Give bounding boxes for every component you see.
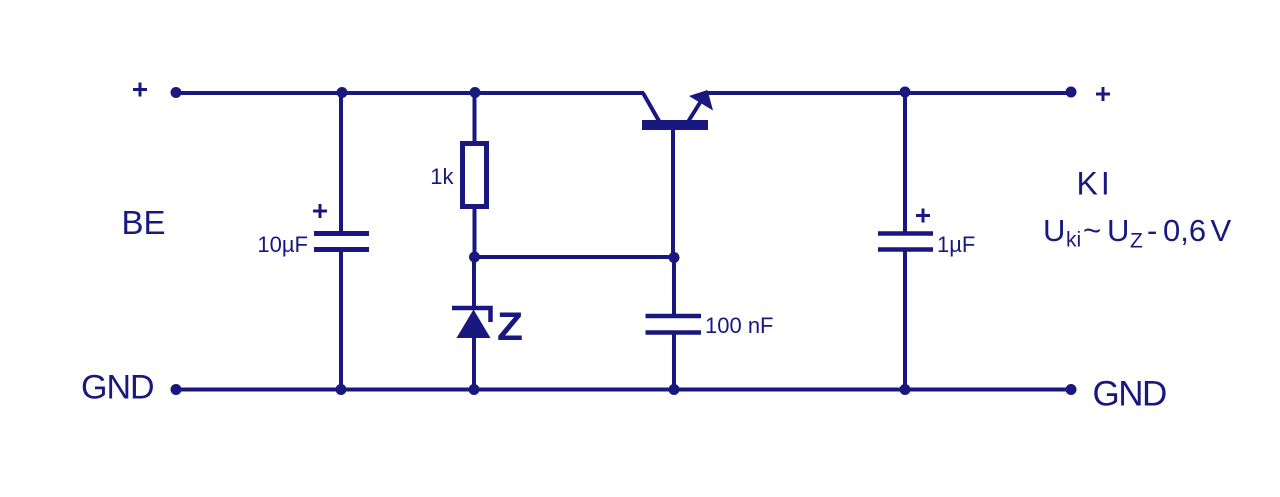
transistor Q1 emitter diagonal xyxy=(689,101,702,121)
node junction top rail C1 xyxy=(337,87,348,98)
capacitor C3 plates (1uF electrolytic) xyxy=(878,234,933,250)
svg-text:ki: ki xyxy=(1066,229,1081,252)
svg-text:Z: Z xyxy=(497,305,523,349)
wire node A to node B horizontal xyxy=(475,255,675,259)
node junction GND C3 xyxy=(900,384,911,395)
wire R1 bottom lead to node A xyxy=(473,207,477,259)
wire C1 branch upper xyxy=(339,93,343,232)
node label + input positive xyxy=(133,83,147,97)
node junction GND C1 xyxy=(336,384,347,395)
wire top rail right segment xyxy=(704,91,1071,95)
node output + terminal dot xyxy=(1066,87,1077,98)
wire D1 bottom lead xyxy=(472,337,476,389)
wire C2 top lead xyxy=(672,257,676,315)
wire top rail left segment xyxy=(176,91,644,95)
svg-text:U: U xyxy=(1043,213,1065,248)
svg-text:10µF: 10µF xyxy=(257,232,308,257)
wire bottom GND rail xyxy=(176,388,1071,392)
node junction top rail C3 xyxy=(900,87,911,98)
wire C2 bottom lead xyxy=(672,334,676,389)
svg-text:1k: 1k xyxy=(430,164,454,189)
node input + terminal dot xyxy=(171,87,182,98)
zener diode D1 anode triangle xyxy=(457,310,491,339)
node junction top rail R1 xyxy=(470,87,481,98)
node B junction base/C2 xyxy=(669,252,680,263)
svg-text:GND: GND xyxy=(81,369,154,407)
svg-text:V: V xyxy=(1211,213,1232,248)
node A junction R1/D1 xyxy=(469,252,480,263)
wire C1 branch lower xyxy=(339,250,343,389)
capacitor C2 plates (100 nF) xyxy=(646,316,702,333)
transistor Q1 emitter arrow head xyxy=(689,90,713,111)
capacitor C1 polarity + mark xyxy=(313,204,327,218)
svg-text:100 nF: 100 nF xyxy=(705,313,774,338)
wire R1 top lead xyxy=(473,93,477,143)
transistor Q1 collector diagonal xyxy=(643,93,659,121)
svg-text:~: ~ xyxy=(1083,213,1101,248)
svg-text:U: U xyxy=(1107,213,1129,248)
svg-text:GND: GND xyxy=(1093,375,1167,414)
wire C3 bottom lead xyxy=(903,250,907,389)
node GND left terminal dot xyxy=(171,384,182,395)
wire D1 top lead xyxy=(472,257,476,307)
capacitor C1 plates (10uF electrolytic) xyxy=(314,234,369,250)
transistor Q1 base bar xyxy=(642,120,708,130)
node GND right terminal dot xyxy=(1066,384,1077,395)
svg-text:KI: KI xyxy=(1077,166,1113,202)
svg-text:-: - xyxy=(1147,213,1157,248)
svg-text:Z: Z xyxy=(1130,230,1143,253)
wire Q1 base lead xyxy=(671,128,675,257)
node label + output positive xyxy=(1096,87,1110,101)
svg-text:1µF: 1µF xyxy=(937,232,975,257)
formula U_ki ~ U_Z - 0,6 V xyxy=(1043,213,1232,253)
capacitor C3 polarity + mark xyxy=(916,209,930,223)
wire C3 top lead xyxy=(903,93,907,232)
svg-text:0,6: 0,6 xyxy=(1163,213,1206,248)
resistor R1 body xyxy=(463,144,487,207)
zener diode D1 cathode bar with hook xyxy=(452,308,491,322)
node junction GND D1 xyxy=(469,384,480,395)
node junction GND C2 xyxy=(669,384,680,395)
svg-text:BE: BE xyxy=(122,204,166,241)
